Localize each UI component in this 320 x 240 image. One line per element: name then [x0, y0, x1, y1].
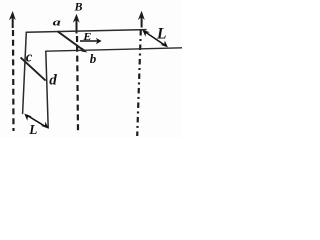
svg-text:b: b	[90, 51, 97, 66]
svg-text:d: d	[49, 72, 57, 88]
svg-text:a: a	[53, 16, 61, 28]
svg-text:B: B	[74, 0, 83, 14]
svg-text:E: E	[82, 32, 92, 43]
svg-text:L: L	[28, 122, 37, 137]
svg-text:L: L	[156, 26, 166, 43]
svg-text:c: c	[26, 50, 33, 66]
